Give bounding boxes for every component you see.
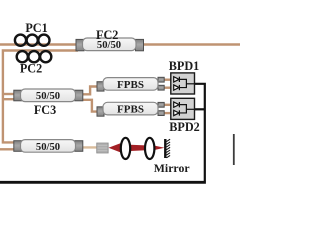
svg-text:50/50: 50/50 [36, 142, 60, 153]
svg-text:PC2: PC2 [20, 62, 42, 76]
svg-text:FC2: FC2 [96, 28, 118, 42]
svg-text:FC3: FC3 [34, 103, 56, 117]
svg-text:BPD1: BPD1 [169, 59, 199, 73]
svg-text:PC1: PC1 [25, 21, 47, 35]
svg-text:50/50: 50/50 [36, 91, 60, 102]
svg-text:FPBS: FPBS [117, 79, 144, 91]
svg-text:FPBS: FPBS [117, 104, 144, 116]
svg-text:BPD2: BPD2 [169, 120, 199, 134]
svg-text:50/50: 50/50 [97, 40, 121, 51]
svg-text:Mirror: Mirror [154, 161, 190, 175]
